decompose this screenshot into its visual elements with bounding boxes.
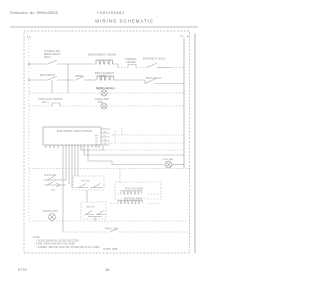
switch thermal limiter [128, 65, 136, 68]
pin wire dashed vertical x122 [121, 128, 123, 135]
motor convection fan [165, 161, 172, 168]
svg-text:1 DOOR SHOWN IN CLOSED POSITI: 1 DOOR SHOWN IN CLOSED POSITION [36, 240, 79, 242]
L2 rail [183, 38, 185, 168]
svg-text:NOTE:: NOTE: [33, 236, 41, 239]
wire drop row2 to row3 a [51, 80, 53, 93]
svg-text:(N.O.): (N.O.) [42, 101, 49, 104]
wire comb drop x78 [77, 148, 79, 176]
svg-text:L2: L2 [180, 34, 184, 38]
svg-text:WIRING SCHEMATIC: WIRING SCHEMATIC [95, 19, 154, 24]
svg-text:RD: RD [95, 141, 99, 143]
wire comb right turn y161 [88, 148, 112, 161]
svg-text:OR: OR [95, 138, 99, 140]
svg-text:MDL SW: MDL SW [81, 181, 91, 183]
N rail [194, 33, 196, 253]
dashed chassis border [24, 31, 190, 253]
wire row4 right dashed [107, 105, 184, 107]
wire row1 after element jog [114, 64, 118, 68]
svg-text:* CABINET GROUND MUST BE CONN: * CABINET GROUND MUST BE CONNECTED AT AL… [36, 246, 100, 249]
switch row2 mid [76, 76, 84, 80]
svg-text:OR: OR [104, 139, 108, 141]
wire row2 left [29, 79, 48, 81]
resistor broil element [97, 76, 113, 80]
wire row1 dashed to limiter [118, 67, 128, 69]
wire hook row3 end [182, 89, 184, 93]
wire to fan [112, 161, 165, 165]
svg-text:TOP COIL 800W: TOP COIL 800W [125, 188, 144, 191]
pin stub right 4 [101, 140, 110, 142]
lock switch assembly dashed box B [81, 202, 106, 219]
wire comb drop x69 [68, 148, 70, 184]
svg-text:LIMITER: LIMITER [126, 61, 136, 64]
wire dashed vertical to warmer box [119, 169, 121, 183]
L1 rail [28, 39, 30, 221]
svg-text:RD: RD [104, 143, 108, 145]
warmer dashed box [115, 182, 161, 199]
switch DLB-1 [48, 60, 57, 64]
wire row3 dashed [29, 92, 101, 94]
svg-text:BAKE ELEMENT (2585W): BAKE ELEMENT (2585W) [88, 54, 116, 57]
svg-text:REAR LAMP 40W: REAR LAMP 40W [96, 88, 116, 91]
switch box B 2 [96, 214, 105, 216]
wire row1 mid [57, 63, 95, 65]
switch oven light [52, 103, 60, 106]
resistor warmer coil 2 [111, 203, 118, 205]
wire dashed row y221 [29, 220, 190, 222]
switch broil relay [145, 79, 155, 84]
svg-text:3050W: 3050W [75, 75, 83, 78]
svg-text:FGB24S5AB3: FGB24S5AB3 [97, 11, 125, 15]
svg-text:UNLOCK: UNLOCK [86, 207, 96, 209]
svg-text:MDL SWITCH: MDL SWITCH [40, 74, 55, 77]
svg-text:W: W [104, 135, 106, 137]
wire row2 right [115, 80, 145, 84]
wire row1 dashed to relay [136, 67, 147, 69]
svg-text:16: 16 [105, 268, 109, 272]
node junction row2 [28, 79, 30, 81]
wire chassis dashed row y168 [29, 168, 190, 170]
wire comb drop x75 [74, 148, 76, 176]
switch thermal [110, 229, 118, 233]
lock switch assembly dashed box A [73, 176, 104, 190]
svg-text:ELECTRONIC OVEN CONTROL: ELECTRONIC OVEN CONTROL [57, 130, 93, 133]
svg-text:N.C.: N.C. [51, 189, 56, 192]
wire comb right turn y155 [84, 148, 184, 155]
wire row4 mid dashed [60, 105, 101, 107]
svg-text:N: N [187, 34, 189, 38]
pin stub right 3 [101, 136, 110, 138]
switch latch 2 [44, 184, 66, 186]
wire comb drop x66 [65, 148, 67, 180]
svg-text:CONV FAN: CONV FAN [162, 158, 174, 161]
latch arrow [56, 183, 60, 187]
svg-text:BAKE RELAY (EOC): BAKE RELAY (EOC) [143, 58, 165, 61]
wire between boxes [86, 190, 88, 202]
pin stub right 2 [101, 132, 110, 134]
lamp oven lamp [101, 103, 107, 109]
wire row1 dashed to L2 [170, 67, 184, 69]
wire row y232 dashed [63, 231, 108, 232]
wire comb drop x63 [62, 148, 64, 231]
pin comb under EOC [46, 145, 99, 148]
lamp rear oven lamp [101, 90, 107, 96]
wire row4 left dashed [29, 105, 52, 107]
svg-text:2 MDL SWITCH SHOWN UNLOCKED: 2 MDL SWITCH SHOWN UNLOCKED [36, 244, 76, 246]
wire drop row2 to row3 b [67, 64, 69, 93]
resistor bake element [96, 60, 112, 64]
wire comb right turn y150 [81, 148, 105, 150]
wire comb drop x72 [71, 148, 73, 188]
node junction row1 [28, 63, 30, 65]
wire fan to L2 [172, 164, 184, 166]
svg-text:L1: L1 [27, 35, 31, 39]
resistor warmer coil 1 [117, 193, 121, 195]
svg-text:* DOOR LOCK: * DOOR LOCK [42, 210, 58, 213]
switch DLB-2 [147, 63, 157, 68]
svg-text:Publication No. 5995443E08: Publication No. 5995443E08 [10, 11, 58, 15]
svg-text:33HFT8B: 33HFT8B [103, 247, 118, 251]
pin stub right 5 [101, 144, 110, 146]
switch latch 1 [44, 179, 58, 181]
motor door lock [49, 214, 56, 221]
wire EOC corner drop [102, 145, 104, 150]
switch box B 1 [84, 214, 94, 216]
svg-text:(EOC): (EOC) [44, 56, 51, 59]
switch box A 2 [90, 187, 102, 189]
header rule [10, 26, 198, 28]
wire box B T bar [88, 216, 102, 218]
pin wire dashed y143 [105, 142, 184, 144]
wire row1 left [29, 63, 48, 65]
switch MDL [48, 76, 57, 80]
switch box A 1 [76, 187, 88, 189]
pin wire dashed y135 [112, 134, 184, 136]
svg-text:LATCH SW: LATCH SW [44, 174, 57, 177]
EOC control box [43, 127, 101, 145]
svg-text:5702: 5702 [18, 268, 27, 272]
wire latch to comb [58, 179, 66, 181]
pin stub right 1 [101, 128, 110, 130]
